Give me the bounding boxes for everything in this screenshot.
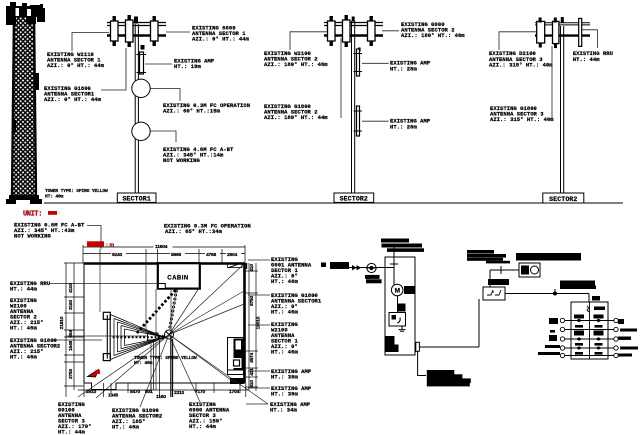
- svg-text:410: 410: [249, 380, 255, 388]
- svg-text:1045: 1045: [108, 393, 119, 399]
- svg-text:AZI.: 180° HT.: 46m: AZI.: 180° HT.: 46m: [264, 61, 328, 68]
- svg-text:SECTOR2: SECTOR2: [340, 196, 368, 203]
- svg-text:AZI.: 0° HT.: 44m: AZI.: 0° HT.: 44m: [44, 96, 102, 103]
- svg-text:2904: 2904: [227, 252, 238, 258]
- svg-text:HT.: 46m: HT.: 46m: [271, 278, 298, 285]
- svg-text:HT.: 39m: HT.: 39m: [271, 391, 298, 398]
- svg-text:9240: 9240: [112, 252, 123, 258]
- svg-text:HT.: 20m: HT.: 20m: [390, 123, 417, 130]
- svg-text:HT.: 46m: HT.: 46m: [10, 325, 37, 332]
- svg-text:410: 410: [249, 264, 255, 272]
- svg-text:3160: 3160: [68, 299, 74, 310]
- svg-text:TOWER TYPE: SPIRO YELLOW: TOWER TYPE: SPIRO YELLOW: [45, 188, 108, 194]
- svg-text:8470: 8470: [130, 389, 141, 395]
- svg-text:1160: 1160: [156, 394, 166, 400]
- svg-text:AZI.: 315° HT.: 40m: AZI.: 315° HT.: 40m: [490, 116, 554, 123]
- svg-text:HT.: 46m: HT.: 46m: [271, 349, 298, 356]
- svg-text:: m: : m: [106, 242, 114, 248]
- svg-text:19010: 19010: [256, 316, 262, 329]
- svg-text:SECTOR1: SECTOR1: [122, 196, 150, 203]
- svg-text:4574: 4574: [249, 352, 255, 363]
- svg-text:421: 421: [249, 368, 255, 376]
- svg-text:AZI.: 180° HT.: 44m: AZI.: 180° HT.: 44m: [264, 114, 328, 121]
- svg-text:HT.: 44m: HT.: 44m: [573, 56, 600, 63]
- svg-text:2310: 2310: [174, 390, 185, 396]
- svg-text:HT.: 44m: HT.: 44m: [189, 423, 216, 430]
- svg-text:7170: 7170: [195, 389, 206, 395]
- svg-text:1704: 1704: [229, 389, 240, 395]
- svg-text:HT.: 19m: HT.: 19m: [174, 63, 201, 70]
- svg-text:M: M: [395, 287, 400, 294]
- svg-text:HT.: 46m: HT.: 46m: [112, 424, 139, 431]
- svg-text:HT.: 28m: HT.: 28m: [390, 66, 417, 73]
- svg-text:8750: 8750: [249, 295, 255, 306]
- svg-text:804: 804: [68, 330, 74, 338]
- svg-text:NOT WORKING: NOT WORKING: [14, 233, 52, 240]
- svg-text:NOT WORKING: NOT WORKING: [163, 157, 201, 164]
- svg-text:UNIT:: UNIT:: [23, 211, 42, 219]
- svg-text:HT.: 46m: HT.: 46m: [271, 309, 298, 316]
- svg-text:AZI.: 315° HT.: 40m: AZI.: 315° HT.: 40m: [489, 61, 553, 68]
- svg-text:SECTOR2: SECTOR2: [549, 196, 577, 203]
- svg-text:11904: 11904: [155, 244, 168, 250]
- svg-text:HT.: 46m: HT.: 46m: [10, 354, 37, 361]
- svg-text:4100: 4100: [68, 282, 74, 293]
- svg-text:HT.: 34m: HT.: 34m: [270, 407, 297, 414]
- svg-text:2910: 2910: [86, 389, 97, 395]
- svg-text:HT.: 44m: HT.: 44m: [58, 429, 85, 435]
- svg-text:801: 801: [145, 389, 153, 395]
- svg-text:AZI.: 180° HT.: 46m: AZI.: 180° HT.: 46m: [401, 32, 465, 39]
- svg-text:5965: 5965: [171, 252, 182, 258]
- svg-text:HT: 40m: HT: 40m: [134, 360, 153, 366]
- svg-text:4768: 4768: [206, 252, 217, 258]
- svg-text:2750: 2750: [68, 368, 74, 379]
- svg-text:HT.: 44m: HT.: 44m: [10, 286, 37, 293]
- svg-text:CABIN: CABIN: [167, 276, 189, 282]
- svg-text:1548: 1548: [68, 340, 74, 351]
- svg-text:AZI.: 0° HT.: 44m: AZI.: 0° HT.: 44m: [192, 36, 250, 43]
- svg-text:21810: 21810: [59, 316, 65, 329]
- svg-text:HT: 40m: HT: 40m: [45, 194, 64, 200]
- svg-text:AZI.: 60° HT.:15m: AZI.: 60° HT.:15m: [163, 108, 221, 115]
- svg-text:AZI.: 65° HT.:34m: AZI.: 65° HT.:34m: [165, 228, 223, 235]
- svg-text:AZI.: 0° HT.: 44m: AZI.: 0° HT.: 44m: [47, 62, 105, 69]
- svg-text:HT.: 39m: HT.: 39m: [271, 374, 298, 381]
